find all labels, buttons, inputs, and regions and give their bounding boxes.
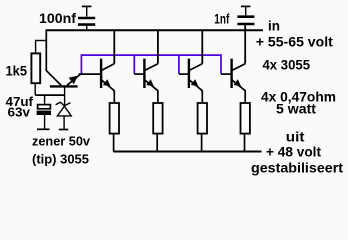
svg-text:4x 3055: 4x 3055 [263, 57, 311, 73]
svg-text:1k5: 1k5 [6, 63, 28, 79]
svg-text:+ 48 volt: + 48 volt [266, 144, 321, 160]
svg-text:zener 50v: zener 50v [32, 134, 90, 148]
svg-text:100nf: 100nf [39, 10, 76, 26]
svg-text:5 watt: 5 watt [276, 101, 316, 117]
svg-text:(tip) 3055: (tip) 3055 [32, 153, 89, 167]
svg-text:+ 55-65 volt: + 55-65 volt [256, 34, 333, 50]
svg-text:63v: 63v [8, 106, 31, 120]
svg-text:1nf: 1nf [214, 12, 229, 27]
svg-text:gestabiliseert: gestabiliseert [251, 160, 343, 176]
svg-text:uit: uit [286, 129, 305, 145]
svg-text:in: in [268, 18, 280, 34]
